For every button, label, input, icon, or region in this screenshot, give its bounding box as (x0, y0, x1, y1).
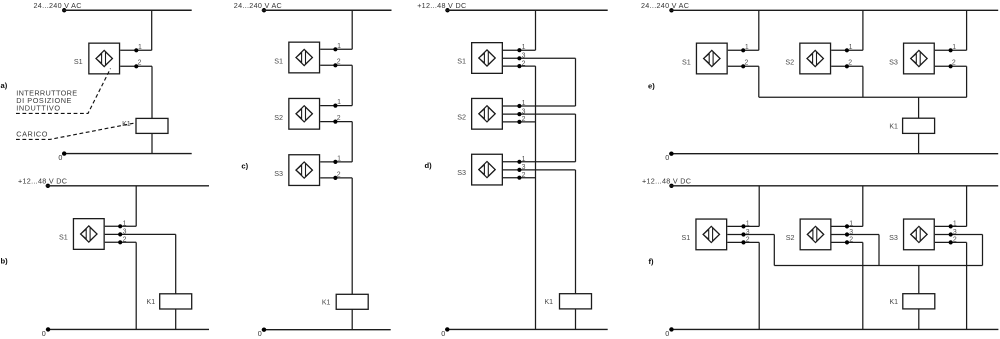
junction dot S2 pin 3 (d) (517, 112, 521, 116)
svg-text:0: 0 (258, 329, 262, 338)
wire: S3 pin 2 lead (d) (503, 177, 536, 179)
wire: bottom 0 rail (e) (669, 153, 998, 155)
relay coil K1 (e) (903, 118, 935, 133)
junction dot S1 pin 3 (d) (517, 56, 521, 60)
wire: S1 pin 2 lead (f) (727, 241, 759, 243)
wire: S3 pin 3 drop to output bus (f) (982, 235, 984, 266)
svg-text:3: 3 (522, 53, 526, 60)
node: DC supply rail dot (b) (46, 184, 50, 188)
junction dot S1 pin 3 (f) (741, 232, 745, 236)
svg-text:2: 2 (337, 171, 341, 178)
pin number 2 S3 (c) (337, 171, 341, 178)
svg-text:24...240 V AC: 24...240 V AC (34, 1, 82, 10)
wire: S3 pin2 down to coil (c) (351, 178, 353, 294)
wire: S2 pin 2 lead (f) (832, 241, 863, 243)
wire: S3 pin 2 drop to 0 rail (f) (966, 242, 968, 329)
wire: S2 pin 1 lead (d) (503, 105, 576, 107)
pin number 1 S1 (d) (522, 44, 526, 51)
supply label +12...48 V DC (f) (642, 177, 691, 186)
wire: S1 pin 2 lead (c) (320, 64, 352, 66)
pin number 3 S1 (d) (522, 53, 526, 60)
wire: top supply rail (f) (669, 185, 998, 187)
proximity switch S2 (c) (289, 98, 320, 129)
label S2 (d) (457, 112, 466, 121)
wire: rail to S3 pin 1 riser (e) (966, 10, 968, 50)
wire: top supply rail (d) (445, 9, 607, 11)
label 0 (d) (441, 329, 445, 338)
svg-text:3: 3 (953, 229, 957, 236)
wire: S1 pin 1 lead (e) (728, 49, 759, 51)
pin number 2 S3 (f) (953, 237, 957, 244)
svg-text:1: 1 (952, 44, 956, 51)
wire: top supply rail (e) (669, 9, 998, 11)
svg-text:K1: K1 (322, 300, 331, 307)
supply label 24...240 V AC (a) (34, 1, 82, 10)
svg-text:1: 1 (522, 44, 526, 51)
wire: S3 pin3 down to coil (d) (575, 170, 577, 294)
svg-text:24...240 V AC: 24...240 V AC (234, 1, 282, 10)
wire: coil to 0 rail (f) (918, 309, 920, 330)
node: 0 rail dot (d) (445, 327, 449, 331)
circuit label d) (425, 161, 433, 170)
label S1 (d) (457, 57, 466, 66)
svg-text:a): a) (1, 81, 8, 90)
pin number 3 S2 (d) (522, 108, 526, 115)
svg-text:+12...48 V DC: +12...48 V DC (642, 177, 691, 186)
relay coil K1 (f) (903, 294, 935, 309)
junction dot S3 pin 1 (c) (333, 160, 337, 164)
svg-text:1: 1 (123, 220, 127, 227)
wire: S3 pin 3 lead (f) (935, 234, 983, 236)
junction dot S3 pin 2 (d) (517, 176, 521, 180)
svg-text:S1: S1 (59, 233, 68, 242)
wire: pin 3 down to 0 rail (b) (135, 242, 137, 329)
junction dot S3 pin 2 (e) (949, 64, 953, 68)
pin number 3 S3 (f) (953, 229, 957, 236)
dashed leader: sensor callout (a) (16, 69, 111, 114)
wire: S3 pin 2 lead (e) (935, 65, 967, 67)
wire: bottom 0 rail (b) (46, 328, 209, 330)
pin number 1 (a) (138, 44, 142, 51)
svg-text:S1: S1 (682, 58, 691, 67)
junction dot S3 pin 1 (f) (949, 224, 953, 228)
node: 0 rail dot (c) (262, 328, 266, 332)
wire: S2 pin 3 lead (d) (503, 113, 576, 115)
wire: S1 pin 4 lead to coil branch (b) (105, 233, 176, 235)
proximity switch S3 (e) (904, 43, 935, 74)
wire: S2 pin 2 lead (d) (503, 121, 536, 123)
wire: parallel output bus (e) (759, 96, 967, 98)
proximity switch S2 (f) (800, 219, 831, 250)
wire: coil to 0 rail (e) (918, 133, 920, 153)
pin number 2 S1 (f) (746, 237, 750, 244)
junction dot S3 pin 2 (f) (949, 240, 953, 244)
junction dot S3 pin 1 (e) (949, 48, 953, 52)
svg-text:1: 1 (746, 220, 750, 227)
pin number 1 S2 (e) (849, 44, 853, 51)
proximity switch S1 (e) (696, 43, 727, 74)
svg-text:INDUTTIVO: INDUTTIVO (16, 104, 60, 113)
junction dot pin 3 (b) (118, 240, 122, 244)
supply label +12...48 V DC (d) (417, 1, 466, 10)
junction dot S1 pin 1 (c) (333, 47, 337, 51)
wire: S1 pin 2 lead (d) (503, 65, 536, 67)
svg-text:2: 2 (522, 60, 526, 67)
node: 0 rail dot (b) (46, 327, 50, 331)
svg-text:0: 0 (58, 153, 62, 162)
wire: rail to pin 1 riser (a) (151, 10, 153, 50)
svg-text:K1: K1 (544, 299, 553, 306)
wire: top supply rail (a) (62, 9, 192, 11)
supply label +12...48 V DC (b) (18, 176, 67, 185)
svg-text:S2: S2 (457, 112, 466, 121)
svg-text:1: 1 (522, 156, 526, 163)
wire: S3 pin 1 lead (c) (320, 161, 352, 163)
label 0 (c) (258, 329, 262, 338)
pin number 3 S3 (d) (522, 164, 526, 171)
svg-text:0: 0 (665, 153, 669, 162)
wire: rail to S1 pin 1 riser (e) (758, 10, 760, 50)
svg-text:1: 1 (337, 99, 341, 106)
proximity switch S2 (e) (800, 43, 831, 74)
svg-text:+12...48 V DC: +12...48 V DC (417, 1, 466, 10)
label S1 (c) (274, 57, 283, 66)
svg-text:S3: S3 (457, 168, 466, 177)
circuit label c) (241, 161, 248, 170)
proximity switch S1 (f) (696, 219, 727, 250)
label K1 (a) (122, 121, 131, 128)
svg-text:e): e) (648, 81, 655, 90)
pin number 1 S2 (d) (522, 100, 526, 107)
pin number 1 S3 (e) (952, 44, 956, 51)
circuit label b) (1, 256, 9, 265)
pin number 2 S2 (d) (522, 116, 526, 123)
junction dot S2 pin 1 (e) (845, 48, 849, 52)
pin number 1 S2 (c) (337, 99, 341, 106)
svg-text:0: 0 (441, 329, 445, 338)
svg-text:2: 2 (745, 60, 749, 67)
pin number 1 (b) (123, 220, 127, 227)
wire: S1 pin 1 lead (b) (105, 225, 136, 227)
junction dot pin 1 (a) (134, 48, 138, 52)
label 0 (b) (42, 329, 46, 338)
junction dot S2 pin 2 (f) (845, 240, 849, 244)
wire: S1 pin 3 lead (b) (105, 241, 136, 243)
wire: S3 pin 1 lead (e) (935, 49, 967, 51)
svg-text:S3: S3 (889, 233, 898, 242)
label S3 (f) (889, 233, 898, 242)
svg-text:3: 3 (522, 164, 526, 171)
wire: coil to 0 rail (b) (175, 309, 177, 329)
dashed leader: load callout (a) (16, 123, 136, 140)
pin number 2 S2 (c) (337, 115, 341, 122)
label K1 (c) (322, 300, 331, 307)
wire: rail to S3 pin 1 riser (f) (966, 186, 968, 227)
wire: S1 pin 1 lead (d) (503, 49, 536, 51)
junction dot S2 pin 2 (d) (517, 120, 521, 124)
pin number 1 S3 (f) (953, 220, 957, 227)
wire: pin 2 down to coil (a) (151, 66, 153, 118)
wire: bottom 0 rail (a) (62, 153, 192, 155)
label S1 (a) (74, 57, 83, 66)
svg-text:CARICO: CARICO (16, 130, 48, 139)
svg-text:3: 3 (849, 229, 853, 236)
annotation CARICO (a) (16, 130, 48, 139)
wire: coil to 0 rail (d) (575, 309, 577, 330)
junction dot S1 pin 1 (d) (517, 48, 521, 52)
label S3 (c) (274, 169, 283, 178)
pin number 2 S2 (f) (849, 237, 853, 244)
pin number 2 S1 (c) (337, 59, 341, 66)
svg-text:S3: S3 (889, 58, 898, 67)
wire: coil to 0 rail (a) (151, 133, 153, 153)
svg-text:d): d) (425, 161, 433, 170)
relay coil K1 (b) (160, 294, 192, 309)
wire: S1 pin3 to S2 pin1 series link (d) (575, 58, 577, 106)
node: 0 rail dot (e) (669, 152, 673, 156)
junction dot S2 pin 2 (e) (845, 64, 849, 68)
pin number 1 S1 (c) (337, 43, 341, 50)
junction dot pin 4 (b) (118, 232, 122, 236)
label 0 (a) (58, 153, 62, 162)
pin number 3 S1 (f) (746, 229, 750, 236)
svg-text:2: 2 (522, 172, 526, 179)
junction dot S2 pin 3 (f) (845, 232, 849, 236)
svg-text:1: 1 (849, 220, 853, 227)
junction dot S3 pin 3 (f) (949, 232, 953, 236)
wire: S3 pin 1 lead (d) (503, 161, 576, 163)
proximity switch S3 (f) (904, 219, 935, 250)
wire: bus down to coil (f) (918, 266, 920, 294)
wire: S2 pin3 to S3 pin1 series link (d) (575, 114, 577, 162)
svg-text:f): f) (649, 257, 655, 266)
svg-text:2: 2 (522, 116, 526, 123)
proximity switch S3 (d) (472, 154, 503, 185)
svg-text:3: 3 (522, 108, 526, 115)
pin number 2 S3 (d) (522, 172, 526, 179)
svg-text:K1: K1 (889, 299, 898, 306)
svg-text:3: 3 (123, 229, 127, 236)
supply label 24...240 V AC (e) (641, 1, 689, 10)
svg-text:S1: S1 (682, 233, 691, 242)
wire: S2 pin 3 drop to output bus (f) (878, 235, 880, 266)
junction dot pin 2 (a) (134, 64, 138, 68)
pin number 2 S2 (e) (848, 60, 852, 67)
wire: S1 pin 3 drop to output bus (f) (773, 235, 775, 266)
wire: bottom 0 rail (c) (262, 329, 391, 331)
node: DC supply rail dot (d) (445, 8, 449, 12)
label S1 (b) (59, 233, 68, 242)
junction dot S1 pin 2 (d) (517, 64, 521, 68)
wire: bottom 0 rail (d) (445, 328, 608, 330)
relay coil K1 (a) (136, 118, 168, 133)
svg-text:3: 3 (746, 229, 750, 236)
wire: S2 pin 2 lead (c) (320, 121, 352, 123)
label K1 (e) (889, 124, 898, 131)
pin number 2 S3 (e) (952, 60, 956, 67)
wire: S1 pin 1 lead (c) (320, 48, 352, 50)
label S1 (e) (682, 58, 691, 67)
label S1 (f) (682, 233, 691, 242)
svg-text:2: 2 (123, 237, 127, 244)
circuit label f) (649, 257, 655, 266)
svg-text:b): b) (1, 256, 9, 265)
wire: S3 pin 2 drop to bus (e) (966, 66, 968, 97)
wire: S1 pin2 to S2 pin1 series link (c) (351, 65, 353, 105)
wire: S1 pin 3 lead (d) (503, 57, 576, 59)
wire: S1 pin 3 lead (f) (727, 234, 774, 236)
proximity switch S1 (b) (73, 219, 104, 250)
label K1 (d) (544, 299, 553, 306)
pin number 1 S1 (f) (746, 220, 750, 227)
pin number 3 (b) (123, 229, 127, 236)
wire: S3 pin 2 lead (f) (935, 241, 967, 243)
svg-text:2: 2 (337, 59, 341, 66)
wire: rail to pin 1 riser (b) (135, 186, 137, 227)
node: AC supply rail dot (c) (262, 8, 266, 12)
wire: top supply rail (c) (262, 9, 392, 11)
wire: S3 pin 1 lead (f) (935, 225, 967, 227)
wire: rail to S2 pin 1 riser (f) (862, 186, 864, 227)
svg-text:2: 2 (952, 60, 956, 67)
svg-text:2: 2 (848, 60, 852, 67)
wire: rail to S1 pin 1 riser (d) (535, 10, 537, 50)
pin number 3 S2 (f) (849, 229, 853, 236)
svg-text:S2: S2 (274, 113, 283, 122)
annotation INDUTTIVO (a) (16, 104, 60, 113)
svg-text:K1: K1 (889, 124, 898, 131)
node: AC supply rail dot (e) (669, 8, 673, 12)
junction dot S1 pin 1 (e) (741, 48, 745, 52)
wire: bus down to coil (e) (918, 97, 920, 118)
wire: 0V bus S1 pin2 down to 0 rail (d) (535, 66, 537, 329)
pin number 2 (b) (123, 237, 127, 244)
label S2 (f) (786, 233, 795, 242)
pin number 2 S1 (e) (745, 60, 749, 67)
proximity switch S2 (d) (472, 98, 503, 129)
svg-text:S3: S3 (274, 169, 283, 178)
junction dot S2 pin 1 (f) (845, 224, 849, 228)
wire: bottom 0 rail (f) (669, 328, 998, 330)
wire: S2 pin 3 lead (f) (832, 234, 880, 236)
svg-text:1: 1 (745, 44, 749, 51)
pin number 2 S1 (d) (522, 60, 526, 67)
svg-text:S1: S1 (274, 57, 283, 66)
pin number 1 S3 (c) (337, 156, 341, 163)
proximity switch S1 (c) (289, 42, 320, 73)
node: DC supply rail dot (f) (669, 184, 673, 188)
wire: S2 pin 2 drop to bus (e) (862, 66, 864, 97)
label K1 (b) (147, 299, 156, 306)
wire: rail to S1 pin 1 riser (c) (351, 10, 353, 49)
svg-text:0: 0 (42, 329, 46, 338)
svg-text:S2: S2 (786, 233, 795, 242)
junction dot S1 pin 2 (c) (333, 63, 337, 67)
svg-text:+12...48 V DC: +12...48 V DC (18, 176, 67, 185)
junction dot S2 pin 1 (d) (517, 104, 521, 108)
wire: S2 pin 1 lead (c) (320, 105, 352, 107)
proximity switch S1 (d) (472, 43, 503, 74)
wire: S2 pin 1 lead (f) (832, 225, 863, 227)
wire: S2 pin 2 lead (e) (831, 65, 863, 67)
wire: S2 pin 1 lead (e) (831, 49, 863, 51)
wire: parallel output bus (f) (774, 265, 982, 267)
pin number 1 S1 (e) (745, 44, 749, 51)
pin number 2 (a) (138, 60, 142, 67)
svg-text:2: 2 (138, 60, 142, 67)
label K1 (f) (889, 299, 898, 306)
wire: coil to 0 rail (c) (351, 309, 353, 329)
circuit label e) (648, 81, 655, 90)
relay coil K1 (d) (560, 294, 592, 309)
proximity switch S3 (c) (289, 155, 320, 186)
supply label 24...240 V AC (c) (234, 1, 282, 10)
svg-text:24...240 V AC: 24...240 V AC (641, 1, 689, 10)
label S2 (c) (274, 113, 283, 122)
wire: S1 pin 1 lead (f) (727, 225, 759, 227)
wire: S1 pin 1 lead (a) (120, 49, 152, 51)
annotation DI POSIZIONE (a) (16, 96, 72, 105)
wire: S1 pin 2 drop to 0 rail (f) (758, 242, 760, 329)
junction dot S1 pin 2 (e) (741, 64, 745, 68)
label S2 (e) (785, 58, 794, 67)
pin number 1 S3 (d) (522, 156, 526, 163)
junction dot S1 pin 2 (f) (741, 240, 745, 244)
svg-text:1: 1 (849, 44, 853, 51)
svg-text:2: 2 (337, 115, 341, 122)
node: AC supply rail dot (a) (62, 8, 66, 12)
wire: S1 pin 2 drop to bus (e) (758, 66, 760, 97)
junction dot S2 pin 2 (c) (333, 120, 337, 124)
node: 0 rail dot (f) (669, 327, 673, 331)
wire: S2 pin 2 drop to 0 rail (f) (862, 242, 864, 329)
junction dot S1 pin 1 (f) (741, 224, 745, 228)
svg-text:2: 2 (953, 237, 957, 244)
svg-text:S1: S1 (74, 57, 83, 66)
wire: output down to coil (b) (175, 234, 177, 293)
node: 0 rail dot (a) (62, 151, 66, 155)
svg-text:1: 1 (953, 220, 957, 227)
annotation INTERRUTTORE (a) (16, 88, 77, 97)
wire: top supply rail (b) (46, 185, 209, 187)
junction dot pin 1 (b) (118, 224, 122, 228)
svg-text:1: 1 (337, 156, 341, 163)
wire: rail to S1 pin 1 riser (f) (758, 186, 760, 227)
junction dot S3 pin 2 (c) (333, 176, 337, 180)
label 0 (f) (665, 329, 669, 338)
wire: S1 pin 2 lead (e) (728, 65, 759, 67)
svg-text:0: 0 (665, 329, 669, 338)
junction dot S3 pin 3 (d) (517, 168, 521, 172)
junction dot S2 pin 1 (c) (333, 104, 337, 108)
label S3 (e) (889, 58, 898, 67)
circuit label a) (1, 81, 8, 90)
pin number 1 S2 (f) (849, 220, 853, 227)
svg-text:S2: S2 (785, 58, 794, 67)
svg-text:K1: K1 (147, 299, 156, 306)
wire: S3 pin 2 lead (c) (320, 177, 352, 179)
label 0 (e) (665, 153, 669, 162)
proximity switch S1 (a) (89, 43, 120, 74)
label S3 (d) (457, 168, 466, 177)
svg-text:1: 1 (522, 100, 526, 107)
svg-text:1: 1 (138, 44, 142, 51)
wire: S2 pin2 to S3 pin1 series link (c) (351, 122, 353, 162)
svg-text:c): c) (241, 161, 248, 170)
svg-text:1: 1 (337, 43, 341, 50)
wire: rail to S2 pin 1 riser (e) (862, 10, 864, 50)
svg-text:2: 2 (746, 237, 750, 244)
